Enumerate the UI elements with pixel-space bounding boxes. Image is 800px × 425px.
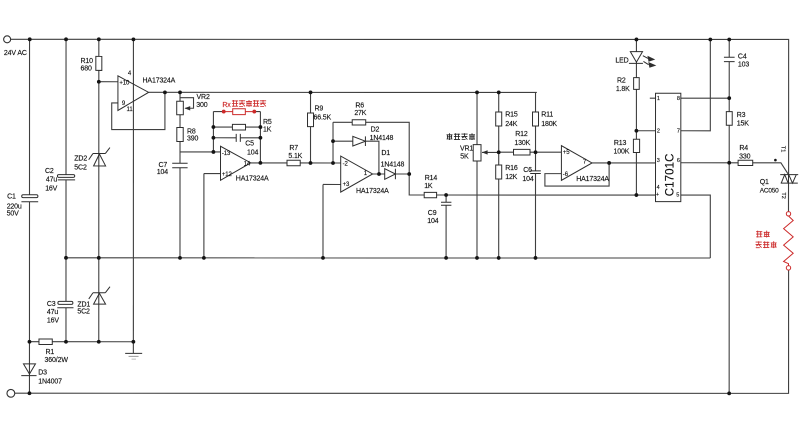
svg-text:C6: C6: [523, 167, 532, 174]
svg-text:+5: +5: [563, 150, 570, 156]
svg-text:360/2W: 360/2W: [45, 357, 69, 364]
svg-text:ZD1: ZD1: [77, 301, 90, 308]
svg-text:5C2: 5C2: [77, 309, 90, 316]
svg-text:330: 330: [739, 153, 750, 160]
svg-text:24V AC: 24V AC: [4, 50, 27, 57]
svg-text:1K: 1K: [263, 126, 272, 133]
svg-text:47u: 47u: [47, 309, 58, 316]
svg-text:220u: 220u: [7, 203, 22, 210]
svg-text:15K: 15K: [737, 120, 749, 127]
svg-text:5: 5: [676, 193, 679, 199]
svg-text:C1701C: C1701C: [664, 153, 676, 196]
svg-text:1N4007: 1N4007: [38, 378, 62, 385]
svg-text:104: 104: [157, 169, 168, 176]
svg-text:4: 4: [657, 185, 660, 191]
svg-text:104: 104: [427, 218, 438, 225]
svg-text:D1: D1: [381, 150, 390, 157]
svg-text:180K: 180K: [541, 121, 557, 128]
svg-text:+12: +12: [222, 172, 233, 178]
svg-text:R9: R9: [315, 105, 324, 112]
svg-text:5C2: 5C2: [74, 164, 87, 171]
svg-text:103: 103: [738, 61, 749, 68]
svg-text:T2: T2: [780, 192, 786, 198]
svg-text:27K: 27K: [354, 110, 366, 117]
svg-text:C9: C9: [428, 210, 437, 217]
svg-text:C4: C4: [738, 53, 747, 60]
svg-text:VR1: VR1: [460, 146, 473, 153]
svg-text:1N4148: 1N4148: [370, 135, 394, 142]
svg-text:8: 8: [677, 96, 680, 102]
svg-text:11: 11: [127, 107, 134, 113]
svg-text:2: 2: [657, 129, 660, 135]
svg-text:HA17324A: HA17324A: [143, 77, 176, 84]
svg-text:16V: 16V: [45, 185, 57, 192]
svg-text:ZD2: ZD2: [74, 156, 87, 163]
svg-text:T1: T1: [780, 146, 786, 152]
svg-text:Rx: Rx: [222, 102, 231, 109]
svg-text:50V: 50V: [7, 210, 19, 217]
svg-text:+10: +10: [119, 81, 130, 87]
svg-text:R2: R2: [617, 78, 626, 85]
svg-text:R3: R3: [737, 112, 746, 119]
svg-text:Q1: Q1: [760, 179, 769, 186]
svg-text:12K: 12K: [505, 174, 517, 181]
svg-text:C2: C2: [45, 168, 54, 175]
svg-text:R7: R7: [289, 145, 298, 152]
svg-text:R4: R4: [739, 145, 748, 152]
svg-text:100K: 100K: [614, 148, 630, 155]
svg-text:VR2: VR2: [197, 94, 210, 101]
svg-text:390: 390: [187, 135, 198, 142]
svg-text:C5: C5: [245, 140, 254, 147]
svg-text:R10: R10: [81, 58, 94, 65]
svg-text:104: 104: [247, 149, 258, 156]
svg-text:R5: R5: [263, 119, 272, 126]
svg-text:C3: C3: [47, 301, 56, 308]
svg-text:D3: D3: [38, 370, 47, 377]
svg-text:R6: R6: [355, 102, 364, 109]
svg-text:HA17324A: HA17324A: [236, 176, 269, 183]
svg-text:R11: R11: [541, 111, 553, 118]
svg-text:47u: 47u: [46, 177, 57, 184]
svg-text:+3: +3: [343, 182, 350, 188]
svg-text:C7: C7: [159, 162, 168, 169]
svg-text:6: 6: [677, 158, 680, 164]
svg-text:R12: R12: [515, 131, 528, 138]
svg-text:R1: R1: [45, 349, 54, 356]
svg-text:3: 3: [657, 158, 660, 164]
svg-text:104: 104: [522, 176, 533, 183]
svg-text:-13: -13: [222, 151, 231, 157]
svg-text:D2: D2: [371, 126, 380, 133]
svg-text:7: 7: [677, 129, 680, 135]
svg-text:5.1K: 5.1K: [288, 153, 302, 160]
svg-text:5K: 5K: [460, 154, 469, 161]
svg-text:24K: 24K: [505, 121, 517, 128]
svg-text:1: 1: [657, 96, 660, 102]
svg-text:R16: R16: [505, 165, 518, 172]
svg-text:R15: R15: [505, 111, 518, 118]
svg-text:HA17324A: HA17324A: [356, 188, 389, 195]
svg-text:16V: 16V: [47, 318, 59, 325]
svg-text:300: 300: [196, 102, 207, 109]
svg-text:14: 14: [244, 161, 251, 167]
svg-text:R13: R13: [614, 140, 627, 147]
svg-text:C1: C1: [7, 193, 16, 200]
svg-text:130K: 130K: [514, 140, 530, 147]
svg-text:66.5K: 66.5K: [314, 115, 332, 122]
svg-text:-6: -6: [563, 172, 569, 178]
svg-text:680: 680: [81, 65, 92, 72]
svg-text:1.8K: 1.8K: [616, 86, 630, 93]
svg-text:1K: 1K: [424, 183, 433, 190]
svg-text:LED: LED: [615, 57, 628, 64]
svg-text:HA17324A: HA17324A: [576, 176, 609, 183]
svg-text:AC050: AC050: [760, 187, 779, 194]
svg-text:R14: R14: [425, 175, 438, 182]
svg-text:+: +: [656, 192, 659, 198]
svg-text:-2: -2: [343, 161, 349, 167]
svg-text:1N4148: 1N4148: [381, 161, 405, 168]
